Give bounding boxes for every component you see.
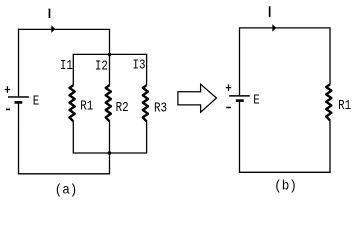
battery E2 short plate	[236, 99, 244, 102]
svg-text:R1: R1	[338, 98, 351, 114]
svg-text:R1: R1	[80, 98, 93, 114]
big hollow arrow	[178, 84, 217, 112]
battery E2 plus sign	[226, 84, 231, 91]
wire bottom left circuit	[18, 173, 110, 175]
svg-text:(a): (a)	[55, 183, 78, 199]
wire branch 3 upper lead	[146, 54, 148, 86]
current arrowhead I left	[51, 25, 55, 33]
wire branch 1 upper lead	[72, 54, 74, 86]
battery E1 long plate	[8, 96, 29, 98]
resistor R1 equivalent	[326, 84, 331, 120]
wire branch 2 lower lead	[109, 121, 111, 153]
svg-text:I3: I3	[133, 58, 146, 74]
node B junction dot	[108, 151, 112, 155]
current arrowhead I right	[272, 24, 276, 31]
battery E1 short plate	[15, 101, 23, 104]
svg-text:R3: R3	[154, 100, 167, 116]
wire branch 2 upper lead	[109, 54, 111, 85]
svg-text:E: E	[253, 92, 260, 108]
battery E2 long plate	[229, 95, 250, 97]
svg-text:(b): (b)	[274, 179, 297, 195]
wire top parallel bus	[73, 53, 146, 55]
battery E2 minus sign	[226, 107, 231, 109]
svg-text:I1: I1	[60, 58, 73, 74]
resistor R2	[106, 85, 111, 121]
wire left rail battery top lead	[18, 29, 20, 97]
battery E1 plus sign	[5, 86, 11, 93]
wire right circuit left rail battery bottom lead	[239, 102, 241, 173]
wire top right circuit	[240, 27, 331, 29]
battery E1 minus sign	[6, 108, 10, 110]
wire top left circuit	[19, 28, 110, 30]
wire left rail battery bottom lead	[18, 104, 20, 175]
svg-text:R2: R2	[116, 100, 129, 116]
wire right circuit right rail upper lead	[329, 27, 331, 84]
node A junction dot	[108, 53, 112, 57]
label I left	[49, 9, 51, 18]
svg-text:I2: I2	[95, 59, 108, 75]
wire bottom right circuit	[239, 171, 331, 173]
svg-text:E: E	[33, 94, 40, 110]
wire branch 3 lower lead	[146, 121, 148, 153]
resistor R1	[70, 85, 75, 121]
label I right	[269, 6, 271, 17]
wire right circuit left rail battery top lead	[239, 27, 241, 95]
wire branch 1 lower lead	[72, 121, 74, 153]
resistor R3	[143, 85, 148, 121]
wire drop from node B to bottom wire	[109, 153, 111, 174]
wire bottom parallel bus	[73, 152, 146, 154]
wire right circuit right rail lower lead	[329, 120, 331, 173]
wire drop from top wire to node A	[109, 29, 111, 55]
